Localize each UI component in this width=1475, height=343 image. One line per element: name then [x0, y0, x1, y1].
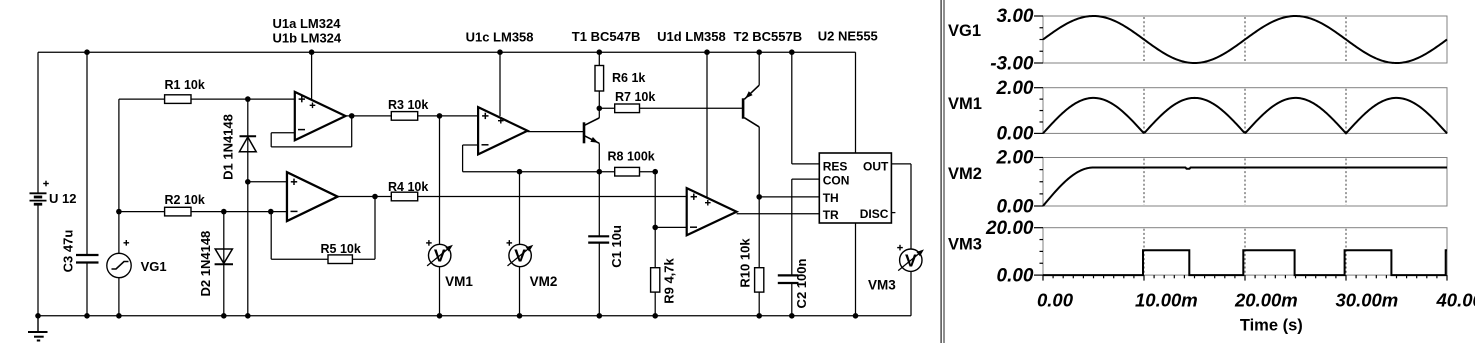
svg-text:VM2: VM2: [530, 274, 558, 289]
svg-text:0.00: 0.00: [1037, 290, 1074, 311]
svg-text:U2 NE555: U2 NE555: [818, 28, 878, 43]
svg-text:R1 10k: R1 10k: [165, 78, 205, 92]
svg-text:TR: TR: [823, 208, 839, 222]
svg-text:Time (s): Time (s): [1240, 317, 1303, 335]
svg-text:VG1: VG1: [141, 259, 167, 274]
svg-text:U1c LM358: U1c LM358: [466, 29, 534, 44]
svg-text:R7 10k: R7 10k: [615, 90, 655, 104]
svg-text:30.00m: 30.00m: [1336, 290, 1399, 311]
svg-text:OUT: OUT: [863, 160, 889, 174]
svg-text:D2 1N4148: D2 1N4148: [198, 231, 213, 297]
svg-text:V: V: [514, 246, 526, 266]
svg-text:-3.00: -3.00: [990, 53, 1034, 74]
svg-text:D1 1N4148: D1 1N4148: [220, 114, 235, 180]
svg-text:40.00m: 40.00m: [1436, 290, 1475, 311]
svg-text:U 12: U 12: [49, 191, 76, 206]
svg-text:T2 BC557B: T2 BC557B: [734, 29, 803, 44]
svg-text:R8 100k: R8 100k: [608, 150, 655, 164]
svg-text:R9 4,7k: R9 4,7k: [661, 257, 676, 303]
svg-text:R10 10k: R10 10k: [737, 238, 752, 288]
svg-text:R5 10k: R5 10k: [321, 242, 361, 256]
svg-text:TH: TH: [823, 191, 839, 205]
svg-text:V: V: [434, 246, 446, 266]
svg-text:RES: RES: [823, 160, 848, 174]
svg-text:VM1: VM1: [445, 274, 473, 289]
svg-text:C1 10u: C1 10u: [609, 225, 624, 268]
svg-text:U1a LM324: U1a LM324: [273, 16, 342, 31]
svg-text:DISC: DISC: [860, 207, 889, 221]
svg-text:VG1: VG1: [948, 22, 981, 40]
svg-text:VM3: VM3: [868, 278, 896, 293]
svg-text:T1 BC547B: T1 BC547B: [572, 29, 641, 44]
svg-text:0.00: 0.00: [997, 265, 1034, 286]
svg-text:R4 10k: R4 10k: [388, 180, 428, 194]
svg-text:R3 10k: R3 10k: [388, 98, 428, 112]
svg-text:20.00m: 20.00m: [1234, 290, 1298, 311]
svg-text:VM2: VM2: [948, 165, 982, 183]
svg-text:3.00: 3.00: [997, 6, 1034, 27]
svg-text:C2 100n: C2 100n: [794, 259, 809, 309]
svg-text:R6 1k: R6 1k: [612, 71, 645, 85]
svg-text:2.00: 2.00: [996, 78, 1034, 99]
svg-text:VM3: VM3: [948, 236, 982, 254]
svg-text:R2 10k: R2 10k: [165, 193, 205, 207]
svg-text:V: V: [905, 250, 917, 270]
svg-text:0.00: 0.00: [997, 124, 1034, 145]
svg-text:2.00: 2.00: [996, 148, 1034, 169]
svg-text:C3 47u: C3 47u: [60, 230, 75, 273]
svg-text:0.00: 0.00: [997, 196, 1034, 217]
svg-text:VM1: VM1: [948, 95, 982, 113]
svg-text:10.00m: 10.00m: [1135, 290, 1198, 311]
svg-text:CON: CON: [823, 173, 850, 187]
svg-text:20.00: 20.00: [985, 218, 1034, 239]
svg-text:U1b LM324: U1b LM324: [273, 31, 342, 46]
svg-text:U1d LM358: U1d LM358: [657, 29, 726, 44]
